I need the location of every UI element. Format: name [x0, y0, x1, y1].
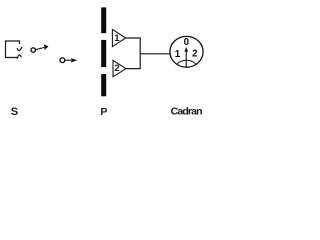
svg-text:Cadran: Cadran: [171, 106, 203, 118]
svg-text:2: 2: [114, 63, 119, 74]
barrier P top segment: [101, 7, 106, 33]
svg-text:0: 0: [184, 37, 190, 48]
barrier P middle segment: [101, 40, 106, 67]
source S upper hook: [17, 47, 22, 51]
dial pivot arc: [177, 60, 197, 64]
svg-text:2: 2: [192, 49, 198, 60]
particle 1 arrow: [36, 47, 45, 49]
svg-text:S: S: [11, 106, 18, 118]
svg-text:P: P: [100, 106, 107, 118]
detector triangle 2: [113, 60, 126, 76]
dial circle: [170, 36, 203, 67]
source S lower hook: [17, 55, 21, 59]
particle 2 arrow: [65, 59, 72, 61]
svg-text:1: 1: [175, 49, 181, 60]
wire from detector 1: [126, 38, 141, 69]
source S box: [6, 41, 20, 58]
detector triangle 1: [112, 29, 125, 46]
barrier P bottom segment: [101, 74, 106, 96]
svg-text:1: 1: [114, 33, 120, 44]
wire to dial: [140, 53, 170, 55]
particle 1 circle: [31, 48, 35, 52]
particle 2 circle: [60, 58, 65, 63]
dial needle: [185, 50, 187, 67]
